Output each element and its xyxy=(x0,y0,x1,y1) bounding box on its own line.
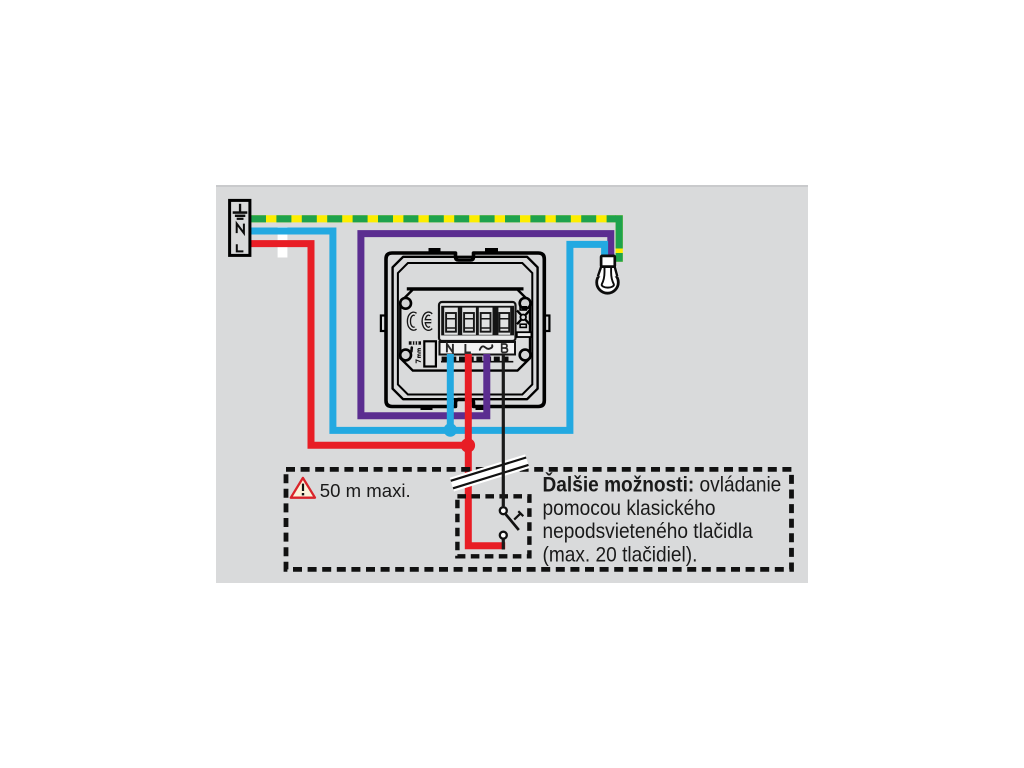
svg-text:(max. 20 tlačidiel).: (max. 20 tlačidiel). xyxy=(543,544,698,567)
plate top edge xyxy=(407,287,524,290)
terminal block body xyxy=(439,302,516,341)
label N xyxy=(447,344,453,353)
side lug left xyxy=(381,316,387,332)
label holder window xyxy=(424,341,436,366)
terminal bank dark body xyxy=(441,306,514,336)
control wire (black) from B terminal xyxy=(502,354,505,506)
svg-text:50 m maxi.: 50 m maxi. xyxy=(320,480,411,501)
purple wire (switched live loop) xyxy=(361,234,611,416)
screw hole top-left xyxy=(400,298,411,309)
terminal plate octagon xyxy=(400,290,530,371)
terminal 1 (N) xyxy=(444,308,458,335)
big dashed annotation box xyxy=(286,469,792,569)
terminal 2 (L) xyxy=(462,308,476,335)
terminal label strip xyxy=(440,342,516,355)
lamp neck xyxy=(596,266,619,277)
mounting claw tab top-left xyxy=(429,248,441,255)
CE marking xyxy=(409,314,431,329)
terminal 4 (B) xyxy=(498,308,510,335)
lamp filament stem xyxy=(602,267,614,288)
push-button bottom contact xyxy=(500,532,507,539)
small dashed box (push-button) xyxy=(457,496,529,556)
control wire stub at push-button xyxy=(502,540,505,550)
svg-text:nepodsvieteného tlačidla: nepodsvieteného tlačidla xyxy=(543,520,754,543)
svg-text:Ďalšie možnosti: ovládanie: Ďalšie možnosti: ovládanie xyxy=(543,472,782,497)
mechanism body outline xyxy=(398,263,532,395)
strip length gauge icon xyxy=(409,341,421,344)
live wire (red) from source xyxy=(251,244,463,446)
stripped wire tick xyxy=(410,346,413,353)
label N (source) xyxy=(237,224,244,234)
mounting claw tab bottom-right xyxy=(476,404,489,411)
lamp cap xyxy=(601,256,615,267)
cable break symbol xyxy=(450,454,530,491)
push-button actuator tick xyxy=(514,511,523,519)
diagram gray background xyxy=(216,185,808,583)
label B xyxy=(502,344,508,352)
warning triangle xyxy=(291,478,315,498)
7 mm label xyxy=(416,349,421,364)
outer mounting frame U1 xyxy=(386,253,544,407)
push-button lever xyxy=(506,514,519,530)
label L (source) xyxy=(237,244,244,251)
live wire (red) from L terminal to push-button xyxy=(468,354,505,546)
screw hole bottom-left xyxy=(400,350,411,361)
cable marker (white band behind wires) xyxy=(278,227,288,258)
warning exclamation xyxy=(302,484,304,491)
annotation paragraph xyxy=(543,472,782,567)
neutral wire (blue) main run xyxy=(251,231,605,430)
label load symbol xyxy=(480,345,493,350)
neutral wire (blue) to N terminal xyxy=(447,354,454,426)
screw hole bottom-right xyxy=(520,350,531,361)
label L xyxy=(465,344,471,352)
earth wire (yellow-green) xyxy=(251,215,619,262)
earth symbol xyxy=(233,204,248,220)
mounting claw tab top-right xyxy=(485,248,498,255)
terminal 3 (load) xyxy=(479,308,493,335)
lamp bulb globe xyxy=(597,272,619,294)
vent comb xyxy=(441,357,513,363)
red junction dot xyxy=(461,438,475,452)
blue wire end blob xyxy=(444,423,457,436)
mounting claw tab bottom-left xyxy=(421,404,433,411)
push-button top contact xyxy=(500,507,507,514)
source box xyxy=(230,200,250,255)
side lug right xyxy=(544,316,550,332)
fixing screw symbol xyxy=(517,307,530,328)
inner support frame xyxy=(393,257,538,399)
screw hole top-right xyxy=(520,298,531,309)
side slot xyxy=(517,332,532,337)
svg-text:pomocou klasického: pomocou klasického xyxy=(543,497,716,520)
